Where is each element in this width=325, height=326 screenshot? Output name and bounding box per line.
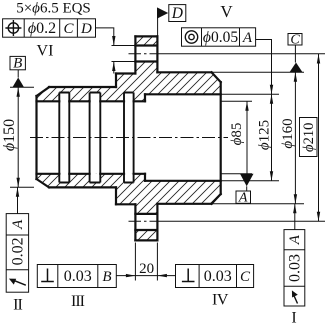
part outline (thick)	[37, 36, 221, 240]
svg-text:ϕ210: ϕ210	[301, 123, 317, 152]
phi85 extension line top	[221, 100, 252, 102]
datum box C	[288, 32, 302, 47]
feature control frame II (circular runout, vertical)	[6, 214, 28, 293]
frame I leader arrow	[293, 204, 296, 214]
phi125 extension line bottom	[221, 180, 279, 182]
svg-text:ϕ0.2: ϕ0.2	[28, 20, 56, 37]
20 dim extension right	[156, 243, 158, 281]
datum triangle C	[290, 63, 303, 73]
hole centerline top	[129, 53, 160, 55]
svg-text:A: A	[242, 30, 253, 46]
chamfer top-left	[37, 87, 50, 96]
datum triangle D	[157, 7, 168, 18]
datum triangle B	[13, 78, 25, 88]
right face	[220, 82, 222, 194]
perpendicularity symbol	[182, 269, 195, 282]
phi160 extension line top	[212, 71, 305, 73]
frame V leader	[256, 40, 272, 95]
svg-text:VI: VI	[37, 43, 54, 60]
datum D extension line	[157, 8, 159, 36]
groove slot 1 white notches	[59, 93, 69, 102]
phi150 top edge	[49, 86, 116, 88]
bolt hole lower arrow stem	[113, 62, 115, 74]
collar bottom edge	[116, 203, 135, 205]
phi210 dimension line	[318, 54, 320, 221]
phi150 extension line top	[10, 86, 34, 88]
feature control frame III (perpendicularity to B)	[37, 265, 116, 288]
thin lines: dimensions and extensions	[10, 8, 319, 281]
datum A stem	[246, 186, 248, 191]
bore step wall top	[144, 94, 146, 101]
runout symbol	[15, 281, 26, 286]
svg-text:II: II	[13, 297, 22, 314]
datum C stem	[294, 45, 296, 63]
svg-text:ϕ150: ϕ150	[1, 119, 18, 151]
groove slot 2 white notches	[90, 93, 101, 102]
groove 2	[90, 93, 101, 183]
position symbol	[8, 23, 18, 33]
chamfer bottom-right	[212, 194, 221, 204]
svg-text:A: A	[287, 234, 303, 245]
svg-text:C: C	[290, 32, 300, 47]
runout symbol	[294, 295, 298, 303]
feature control frame V (concentricity)	[182, 28, 256, 46]
bolt hole extension line upper	[112, 45, 136, 47]
svg-text:B: B	[102, 269, 111, 285]
concentricity symbol	[185, 31, 197, 43]
phi160 dimension line	[294, 72, 296, 204]
phi85 top arrow	[245, 101, 248, 111]
frame V leader arrow	[270, 85, 273, 95]
flange left face top	[134, 36, 136, 73]
svg-text:IV: IV	[212, 292, 229, 309]
svg-text:ϕ0.05: ϕ0.05	[203, 29, 238, 46]
svg-text:III: III	[71, 293, 85, 310]
bolt hole upper edge lines	[135, 46, 157, 62]
feature control frame I (circular runout, vertical)	[284, 230, 305, 306]
left face	[35, 96, 37, 179]
phi125 bore top line	[145, 93, 221, 95]
dimension text phi210 boxed	[300, 118, 318, 157]
20 dim right arrow	[157, 274, 167, 277]
hole center extension line top (to phi210)	[159, 53, 325, 55]
phi150 dimension line	[17, 87, 19, 187]
phi85 bore bottom line	[37, 173, 146, 175]
svg-text:ϕ125: ϕ125	[257, 120, 273, 150]
bore step wall bottom	[144, 174, 146, 181]
phi210 top arrow	[317, 54, 320, 64]
hatch region upper section	[37, 62, 221, 102]
flange right face top	[156, 36, 158, 72]
phi160 top edge	[157, 71, 211, 73]
frame II leader arrow	[16, 187, 19, 197]
svg-text:C: C	[63, 21, 74, 37]
phi150 extension line bottom	[10, 186, 34, 188]
20 dimension line with leaders to frames III and IV	[116, 275, 175, 277]
phi210 bottom arrow	[317, 212, 320, 222]
phi85 extension line bottom	[221, 173, 252, 175]
svg-text:V: V	[220, 2, 233, 21]
svg-text:ϕ85: ϕ85	[229, 123, 245, 146]
svg-text:I: I	[291, 310, 296, 326]
frame II leader line	[17, 187, 19, 213]
feature control frame VI (position)	[3, 19, 96, 37]
svg-text:0.03: 0.03	[64, 268, 92, 285]
phi85 dimension line	[246, 101, 248, 174]
bolt hole lower edge lines	[135, 214, 157, 230]
step up to collar top	[115, 74, 117, 88]
hole centerline bottom	[129, 220, 160, 222]
20 dim extension left	[134, 243, 136, 281]
svg-text:0.03: 0.03	[204, 268, 232, 285]
flange right face bottom	[156, 204, 158, 241]
svg-text:ϕ160: ϕ160	[280, 118, 296, 148]
flange left face bottom	[134, 204, 136, 240]
datum box B	[10, 56, 25, 72]
svg-text:B: B	[13, 56, 22, 72]
flange bottom edge	[135, 239, 157, 241]
phi125 bottom arrow	[270, 171, 273, 181]
phi85 bore top line	[37, 100, 146, 102]
svg-text:20: 20	[139, 261, 154, 277]
svg-text:C: C	[240, 269, 251, 285]
groove 1	[59, 93, 69, 183]
svg-text:D: D	[171, 5, 183, 22]
arrowheads	[16, 36, 320, 277]
feature control frame IV (perpendicularity to C)	[176, 265, 254, 288]
svg-text:A: A	[238, 190, 248, 205]
phi160 bottom arrow	[294, 194, 297, 204]
datum B stem	[17, 70, 19, 78]
phi125 extension line top	[221, 93, 279, 95]
phi150 bottom edge	[49, 186, 116, 188]
bolt hole extension line lower	[112, 61, 136, 63]
frame VI leader	[96, 28, 114, 46]
frame I leader	[294, 204, 296, 230]
groove 3	[124, 93, 134, 183]
bolt hole lower arrow	[112, 62, 115, 72]
hatch region flange top block	[135, 36, 157, 45]
step down to collar bottom	[115, 187, 117, 204]
collar top edge	[116, 72, 135, 74]
datum box D	[169, 5, 186, 23]
chamfer bottom-left	[37, 179, 50, 187]
internal grooves (medium lines)	[59, 93, 133, 183]
perpendicularity symbol	[41, 269, 54, 282]
phi125 bore bottom line	[145, 180, 221, 182]
main centerline	[30, 137, 228, 139]
hole center extension line bottom (to phi210)	[159, 220, 325, 222]
svg-text:A: A	[10, 219, 26, 230]
flange top edge	[135, 35, 157, 37]
svg-text:0.02: 0.02	[9, 237, 26, 265]
hatch region flange bottom block	[135, 230, 157, 240]
svg-text:5×ϕ6.5 EQS: 5×ϕ6.5 EQS	[16, 1, 91, 17]
bolt hole upper arrow	[112, 36, 115, 46]
phi160 top arrow	[294, 72, 297, 82]
phi160 bottom edge	[157, 203, 211, 205]
phi125 top arrow	[270, 94, 273, 104]
svg-text:0.03: 0.03	[286, 254, 303, 282]
20 dim left arrow	[126, 274, 135, 277]
hatch region lower section	[37, 174, 221, 214]
svg-text:D: D	[80, 21, 92, 37]
phi125 dimension line	[271, 94, 273, 181]
phi160 extension line bottom	[212, 203, 305, 205]
groove slot 3 white notches	[124, 93, 134, 102]
phi150 bottom arrow	[17, 178, 20, 188]
chamfer top-right	[212, 72, 221, 82]
datum box A	[236, 190, 251, 205]
phi150 top arrow	[17, 87, 20, 97]
datum triangle A	[240, 174, 254, 187]
